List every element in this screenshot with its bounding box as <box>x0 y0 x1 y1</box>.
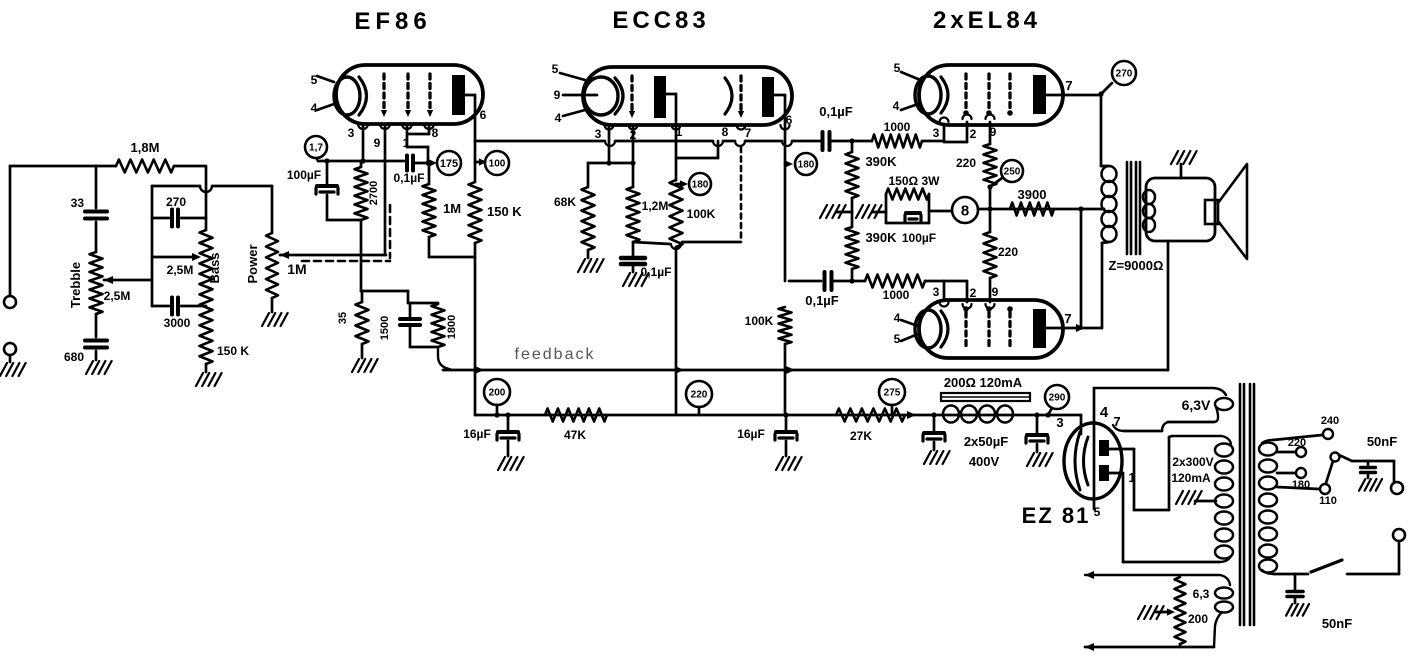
svg-text:4: 4 <box>1100 404 1109 421</box>
svg-text:4: 4 <box>894 311 901 325</box>
svg-text:220: 220 <box>956 156 976 170</box>
svg-text:3: 3 <box>348 126 355 140</box>
svg-text:100µF: 100µF <box>902 231 936 245</box>
svg-text:8: 8 <box>961 202 969 219</box>
svg-text:50nF: 50nF <box>1322 616 1352 631</box>
svg-text:7: 7 <box>745 126 752 140</box>
svg-text:1M: 1M <box>443 201 461 216</box>
svg-text:2x50µF: 2x50µF <box>964 434 1008 449</box>
svg-text:2,5M: 2,5M <box>104 289 131 303</box>
svg-text:390K: 390K <box>865 154 897 169</box>
svg-text:150 K: 150 K <box>217 344 249 358</box>
svg-text:290: 290 <box>1049 393 1066 404</box>
svg-text:2: 2 <box>970 127 977 141</box>
svg-text:Trebble: Trebble <box>68 262 83 308</box>
svg-text:35: 35 <box>337 312 349 324</box>
svg-text:200: 200 <box>489 388 506 399</box>
svg-text:6,3: 6,3 <box>1193 587 1210 601</box>
svg-text:6,3V: 6,3V <box>1182 397 1211 413</box>
svg-text:110: 110 <box>1319 495 1337 507</box>
svg-text:120mA: 120mA <box>1171 471 1211 485</box>
svg-text:1,2M: 1,2M <box>642 199 669 213</box>
svg-text:2x300V: 2x300V <box>1172 455 1213 469</box>
svg-text:390K: 390K <box>865 230 897 245</box>
svg-text:7: 7 <box>1064 311 1071 326</box>
svg-text:68K: 68K <box>554 195 576 209</box>
svg-text:100K: 100K <box>687 207 716 221</box>
svg-text:150Ω 3W: 150Ω 3W <box>889 174 941 188</box>
svg-text:50nF: 50nF <box>1367 434 1397 449</box>
svg-text:2: 2 <box>970 286 977 300</box>
svg-text:7: 7 <box>1065 78 1072 93</box>
svg-text:9: 9 <box>554 88 561 102</box>
svg-text:0,1µF: 0,1µF <box>819 104 853 119</box>
svg-text:5: 5 <box>894 332 901 346</box>
svg-text:3000: 3000 <box>164 316 191 330</box>
svg-text:100: 100 <box>489 159 506 170</box>
svg-text:150 K: 150 K <box>487 204 522 219</box>
svg-text:33: 33 <box>71 196 85 210</box>
svg-text:4: 4 <box>555 111 562 125</box>
svg-text:4: 4 <box>311 101 318 115</box>
svg-text:Bass: Bass <box>207 252 222 283</box>
svg-text:0,1µF: 0,1µF <box>394 171 425 185</box>
svg-text:220: 220 <box>1288 437 1306 449</box>
svg-text:8: 8 <box>722 125 729 139</box>
svg-text:100K: 100K <box>745 314 774 328</box>
svg-text:feedback: feedback <box>515 346 596 363</box>
svg-text:680: 680 <box>64 350 84 364</box>
svg-text:240: 240 <box>1321 415 1339 427</box>
svg-text:16µF: 16µF <box>463 427 491 441</box>
svg-text:Power: Power <box>245 244 260 283</box>
svg-text:5: 5 <box>552 62 559 76</box>
svg-text:3: 3 <box>595 127 602 141</box>
svg-text:250: 250 <box>1004 167 1021 178</box>
svg-text:400V: 400V <box>969 454 1000 469</box>
svg-text:1000: 1000 <box>884 120 911 134</box>
svg-text:1,7: 1,7 <box>309 143 323 154</box>
svg-text:1,8M: 1,8M <box>131 140 160 155</box>
svg-text:270: 270 <box>166 195 186 209</box>
svg-text:9: 9 <box>374 136 381 150</box>
svg-text:1000: 1000 <box>883 288 910 302</box>
svg-text:3: 3 <box>1056 415 1063 430</box>
svg-text:175: 175 <box>440 158 458 170</box>
svg-text:47K: 47K <box>564 428 586 442</box>
svg-text:Z=9000Ω: Z=9000Ω <box>1109 258 1164 273</box>
svg-text:180: 180 <box>798 160 815 171</box>
svg-text:16µF: 16µF <box>737 427 765 441</box>
svg-text:275: 275 <box>884 388 901 399</box>
svg-text:2,5M: 2,5M <box>167 263 194 277</box>
svg-text:200: 200 <box>1188 612 1208 626</box>
svg-text:EF86: EF86 <box>354 8 431 35</box>
svg-text:5: 5 <box>894 61 901 75</box>
svg-text:27K: 27K <box>850 429 872 443</box>
svg-text:0,1µF: 0,1µF <box>805 293 839 308</box>
svg-text:220: 220 <box>998 245 1018 259</box>
svg-text:ECC83: ECC83 <box>612 7 709 34</box>
svg-text:220: 220 <box>691 390 708 401</box>
svg-text:8: 8 <box>432 126 439 140</box>
svg-text:1500: 1500 <box>379 316 391 340</box>
svg-text:9: 9 <box>992 285 999 299</box>
svg-text:6: 6 <box>480 108 487 122</box>
svg-text:200Ω 120mA: 200Ω 120mA <box>944 375 1023 390</box>
svg-text:1800: 1800 <box>446 315 458 339</box>
svg-text:2700: 2700 <box>368 181 380 205</box>
svg-text:3: 3 <box>933 285 940 299</box>
svg-text:4: 4 <box>893 99 900 113</box>
svg-text:3900: 3900 <box>1018 187 1047 202</box>
svg-text:100µF: 100µF <box>287 168 321 182</box>
svg-text:1M: 1M <box>287 261 306 277</box>
svg-text:180: 180 <box>692 180 709 191</box>
svg-text:0,1µF: 0,1µF <box>641 265 672 279</box>
svg-text:270: 270 <box>1116 69 1133 80</box>
svg-text:EZ 81: EZ 81 <box>1022 503 1091 528</box>
svg-text:2xEL84: 2xEL84 <box>933 7 1041 34</box>
svg-text:3: 3 <box>933 126 940 140</box>
